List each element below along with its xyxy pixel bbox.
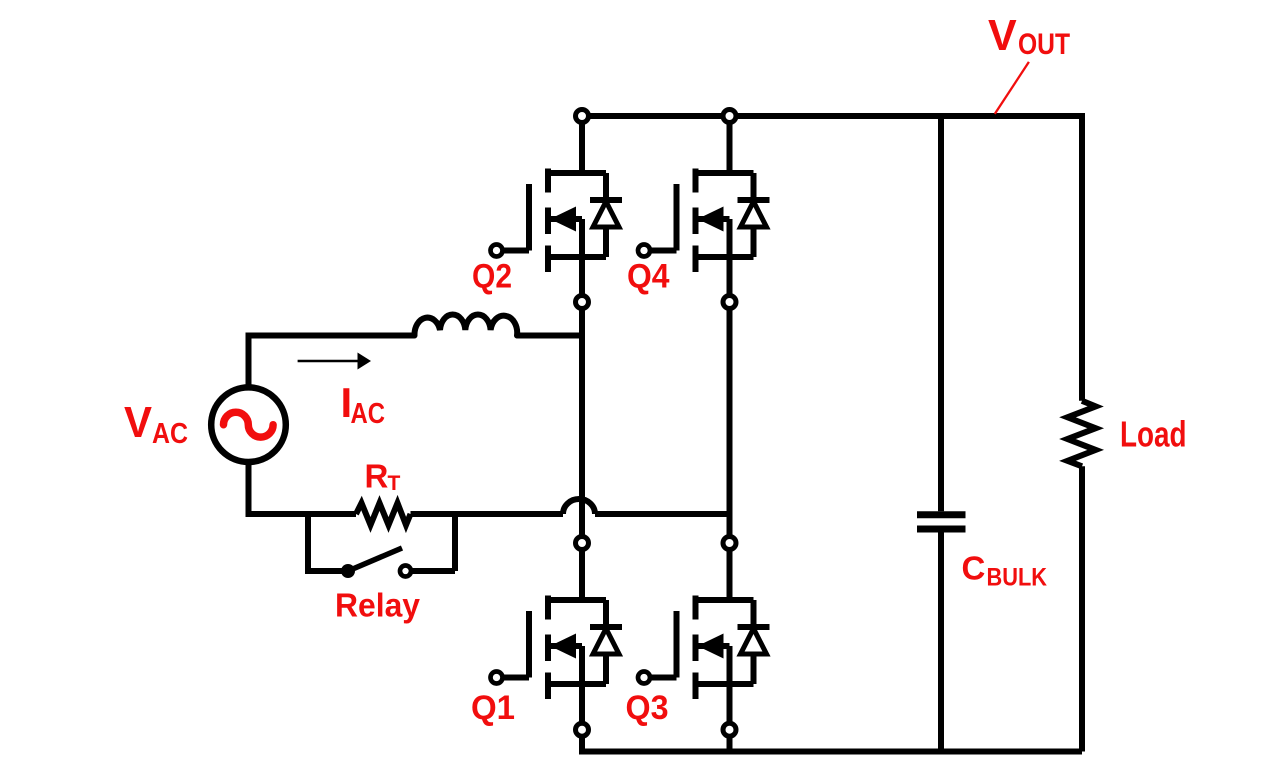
svg-text:Q3: Q3 <box>626 689 669 727</box>
svg-text:Relay: Relay <box>335 586 421 623</box>
wire bottom return rail <box>582 730 1082 752</box>
node Q3 source <box>723 723 736 736</box>
resistor Load <box>1068 401 1096 467</box>
gate terminal of Q4 <box>638 245 650 257</box>
wire Q3 source stub <box>727 730 733 752</box>
transistor Q3 <box>651 543 770 729</box>
svg-text:AC: AC <box>351 398 386 430</box>
wire phase A vertical <box>579 302 585 543</box>
node B-top <box>723 110 736 123</box>
svg-text:OUT: OUT <box>1018 28 1070 61</box>
transistor Q4 <box>651 116 770 302</box>
svg-text:R: R <box>365 457 389 494</box>
wire crossover hop <box>563 499 595 514</box>
gate terminal of Q3 <box>638 672 650 684</box>
wire top output rail <box>582 113 1082 119</box>
gate terminal of Q2 <box>491 245 503 257</box>
node Q4 source <box>723 296 736 309</box>
wire crossover to phase B <box>595 511 730 517</box>
inductor <box>414 315 517 336</box>
wire load branch upper <box>1079 113 1085 401</box>
transistor Q2 <box>503 116 622 302</box>
wire load branch lower <box>1079 466 1085 751</box>
transistor Q1 <box>503 543 622 729</box>
current arrow IAC <box>298 360 359 363</box>
wire inductor to phase A <box>518 333 583 339</box>
wire relay left drop <box>308 514 342 571</box>
svg-text:C: C <box>962 550 986 587</box>
relay switch blade <box>348 548 402 571</box>
svg-text:Load: Load <box>1120 414 1187 455</box>
node Q3 drain <box>723 537 736 550</box>
VOUT leader line <box>995 62 1029 114</box>
svg-text:AC: AC <box>152 418 188 450</box>
svg-text:V: V <box>988 11 1017 60</box>
node Q2 source <box>576 296 589 309</box>
capacitor CBULK plates <box>917 515 966 529</box>
wire VAC bottom to RT <box>249 462 357 514</box>
svg-text:T: T <box>388 472 401 495</box>
wire phase B vertical <box>727 302 733 543</box>
VAC sine symbol <box>224 412 274 437</box>
voltage source VAC <box>211 387 286 462</box>
relay contact throw <box>400 566 411 577</box>
relay contact pole <box>341 564 355 578</box>
svg-text:Q2: Q2 <box>472 258 512 296</box>
node Q1 drain <box>576 537 589 550</box>
wire relay right drop <box>412 514 455 571</box>
node Q1 source <box>576 723 589 736</box>
svg-text:Q4: Q4 <box>627 258 670 296</box>
resistor RT <box>356 503 411 525</box>
wire Cbulk branch lower <box>938 533 944 752</box>
gate terminal of Q1 <box>491 672 503 684</box>
wire Cbulk branch upper <box>938 116 944 511</box>
svg-text:BULK: BULK <box>987 563 1048 591</box>
wire RT to crossover <box>411 511 564 517</box>
svg-text:V: V <box>124 398 153 447</box>
wire VAC top to inductor <box>249 336 415 389</box>
svg-text:Q1: Q1 <box>471 689 515 727</box>
node A-top <box>576 110 589 123</box>
